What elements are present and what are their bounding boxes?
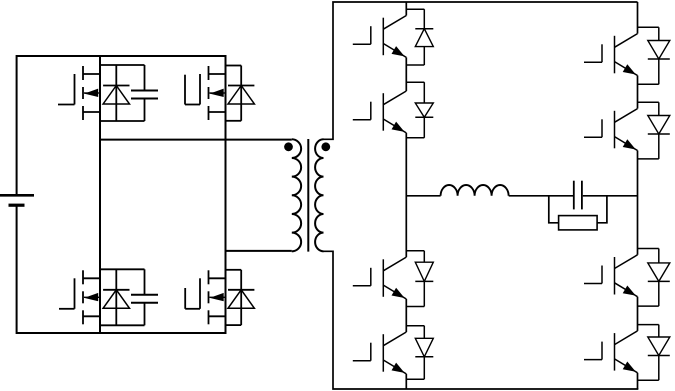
wire: output mid-line (left segment) bbox=[406, 195, 440, 197]
IGBT Q5 bbox=[584, 34, 638, 76]
wire: primary top lead (left leg to T1) bbox=[100, 139, 292, 141]
IGBT Q1 bbox=[353, 16, 407, 58]
body diode D4 bbox=[226, 270, 255, 325]
IGBT Q8 bbox=[584, 331, 638, 373]
wire: secondary top lead and HF bus top rail bbox=[324, 2, 638, 139]
capacitor C3 bbox=[574, 181, 582, 210]
polarity dot (primary) bbox=[284, 142, 293, 151]
polarity dot (secondary) bbox=[321, 142, 330, 151]
wire: secondary bottom lead and HF bus bottom rail bbox=[324, 251, 639, 389]
battery V1 bbox=[0, 195, 34, 205]
diode D5 bbox=[406, 9, 433, 65]
body diode D1 bbox=[103, 65, 129, 121]
IGBT Q6 bbox=[584, 109, 638, 151]
inductor L1 bbox=[441, 185, 509, 196]
MOSFET S4 bbox=[185, 270, 225, 324]
MOSFET S3 bbox=[59, 270, 100, 324]
wire: output mid-line (center segment) bbox=[509, 195, 573, 197]
wire: H-bridge left leg bbox=[99, 56, 101, 333]
wire: output mid-line (right segment) bbox=[583, 195, 638, 197]
transformer T1 secondary winding bbox=[315, 139, 323, 251]
IGBT Q2 bbox=[353, 91, 407, 133]
diode D9 bbox=[638, 27, 670, 84]
IGBT Q3 bbox=[353, 257, 407, 299]
IGBT Q4 bbox=[353, 332, 407, 374]
transformer T1 primary winding bbox=[292, 139, 301, 251]
MOSFET S1 bbox=[58, 66, 100, 120]
wire: left switch column bbox=[405, 2, 407, 389]
diode D7 bbox=[406, 251, 433, 307]
snubber capacitor C1 bbox=[131, 91, 158, 99]
resistor R1 bbox=[559, 216, 598, 230]
diode D11 bbox=[638, 249, 670, 307]
wire: resistor branch left bbox=[549, 196, 559, 223]
wire: resistor branch right bbox=[597, 196, 607, 223]
diode D8 bbox=[406, 326, 433, 380]
diode D12 bbox=[638, 325, 670, 381]
IGBT Q7 bbox=[584, 255, 638, 297]
snubber box S1 bbox=[100, 65, 145, 121]
body diode D2 bbox=[226, 66, 255, 121]
snubber box S3 bbox=[100, 269, 145, 325]
MOSFET S2 bbox=[185, 66, 226, 120]
wire: primary bottom lead (right leg to T1) bbox=[226, 250, 292, 252]
transformer T1 core bbox=[307, 139, 309, 252]
body diode D3 bbox=[103, 269, 129, 325]
wire: right switch column bbox=[637, 2, 639, 389]
snubber capacitor C2 bbox=[131, 295, 158, 303]
wire: DC bus loop (battery to H-bridge rails) bbox=[17, 56, 226, 333]
diode D6 bbox=[406, 82, 433, 138]
diode D10 bbox=[638, 102, 670, 159]
